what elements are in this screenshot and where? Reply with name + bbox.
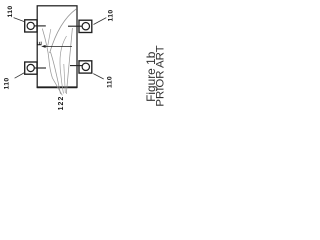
circle top-left	[27, 22, 34, 29]
fan line L6	[64, 64, 66, 93]
main body rectangle	[37, 6, 77, 88]
leader line top-left 110	[14, 18, 25, 22]
E field arrowhead	[41, 45, 45, 48]
tab bottom-right	[79, 61, 92, 73]
tab top-left	[25, 20, 37, 32]
fan line L2	[48, 29, 51, 46]
bottom edge (thick)	[37, 86, 78, 88]
E field arrow line	[44, 45, 73, 47]
circle bottom-right	[82, 63, 89, 70]
svg-text:110: 110	[4, 78, 11, 90]
interior arc trajectory	[50, 9, 77, 53]
fan line L3	[51, 52, 61, 94]
fan line L5	[60, 36, 67, 94]
tab bottom-left	[25, 62, 37, 74]
tick top-left	[34, 25, 46, 27]
fan line L1	[42, 29, 62, 96]
svg-text:110: 110	[108, 10, 115, 22]
svg-text:110: 110	[7, 6, 14, 18]
leader line top-right 110	[94, 18, 107, 25]
leader line bottom-left 110	[15, 73, 25, 79]
leader line bottom-right 110	[93, 74, 103, 79]
svg-text:110: 110	[106, 76, 113, 88]
tab top-right	[79, 20, 92, 32]
svg-text:PRIOR ART: PRIOR ART	[155, 45, 167, 106]
circle bottom-left	[27, 64, 34, 71]
tick top-right	[68, 25, 82, 27]
svg-text:122: 122	[58, 96, 65, 111]
fan line L4	[66, 28, 72, 94]
tick bottom-left	[34, 67, 46, 69]
circle top-right	[82, 23, 89, 30]
tick bottom-right	[70, 65, 82, 67]
svg-text:E: E	[37, 41, 44, 46]
